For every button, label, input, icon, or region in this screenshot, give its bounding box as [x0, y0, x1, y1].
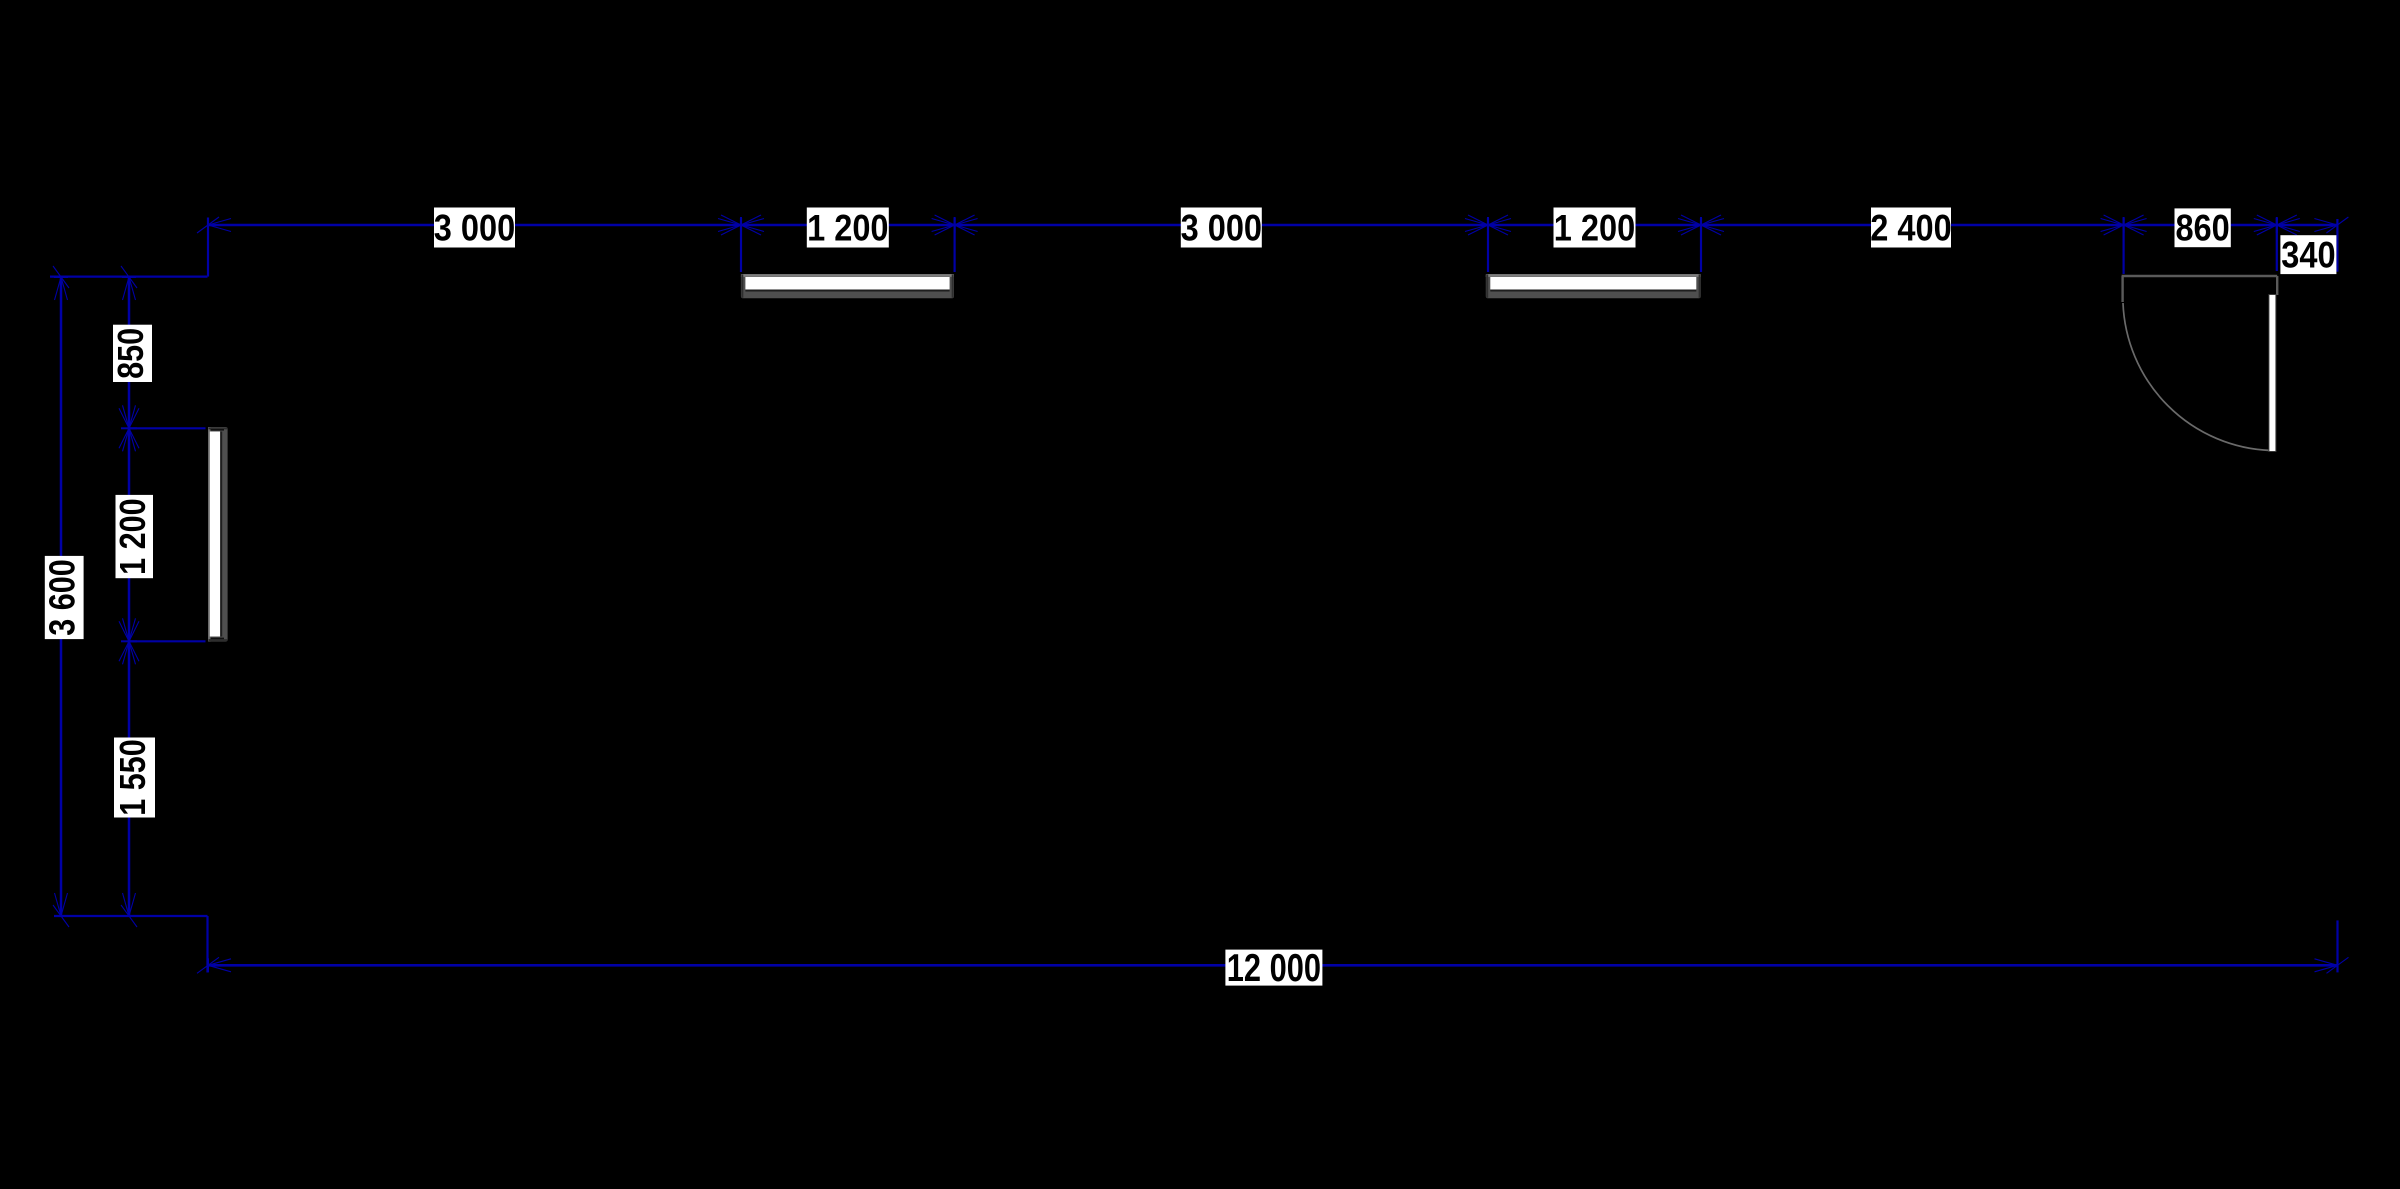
svg-text:3 000: 3 000 [434, 207, 515, 248]
svg-text:3 000: 3 000 [1181, 207, 1262, 248]
svg-text:2 400: 2 400 [1870, 207, 1951, 248]
svg-text:12 000: 12 000 [1227, 947, 1321, 990]
svg-text:850: 850 [112, 328, 152, 379]
svg-text:1 550: 1 550 [114, 739, 154, 816]
svg-text:1 200: 1 200 [807, 207, 888, 248]
svg-text:1 200: 1 200 [1554, 207, 1635, 248]
svg-text:1 200: 1 200 [114, 498, 154, 575]
svg-text:3 600: 3 600 [43, 559, 83, 636]
svg-text:340: 340 [2281, 234, 2335, 275]
svg-text:860: 860 [2175, 208, 2229, 249]
